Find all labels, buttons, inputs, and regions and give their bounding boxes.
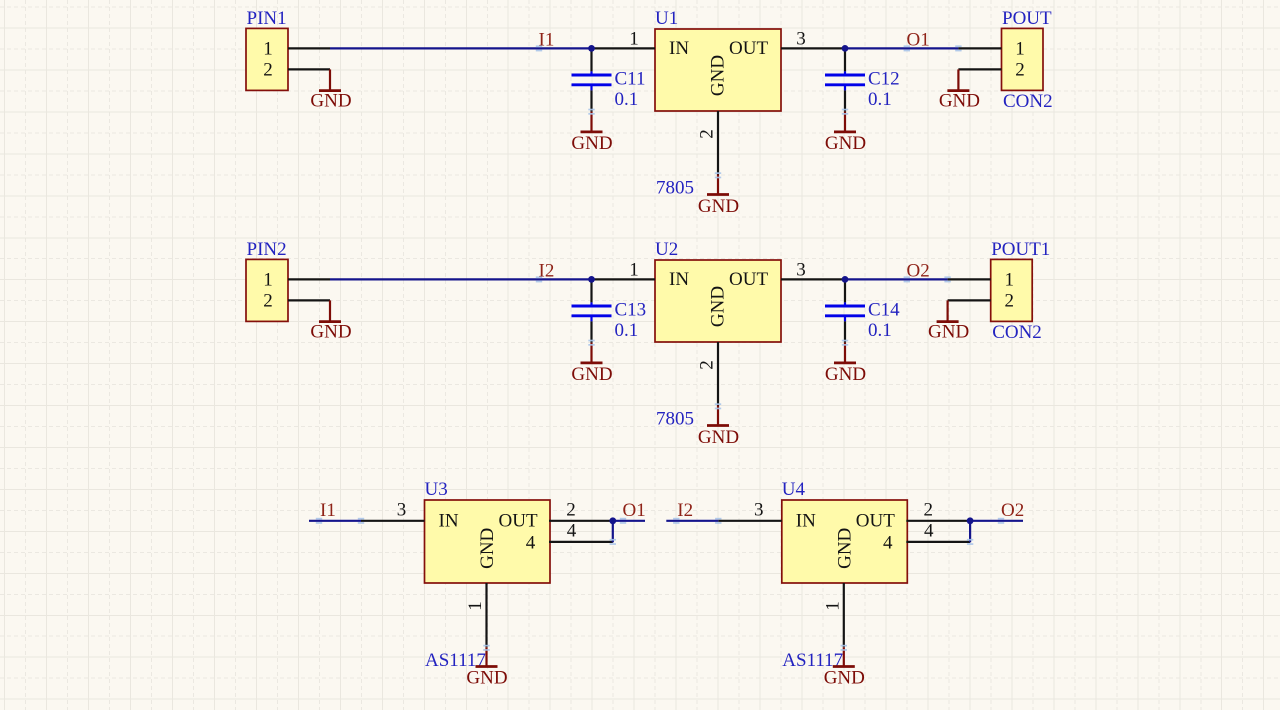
svg-text:C13: C13: [615, 299, 647, 320]
connector POUT1 (CON2): [948, 239, 1051, 321]
svg-text:4: 4: [567, 521, 577, 542]
svg-text:2: 2: [263, 290, 273, 311]
junction at U4 pins 2/4: [967, 517, 974, 524]
connector POUT (CON2): [958, 8, 1052, 90]
svg-text:GND: GND: [928, 322, 969, 343]
svg-text:I2: I2: [539, 260, 555, 281]
svg-text:GND: GND: [698, 427, 739, 448]
capacitor C14 0.1: [825, 279, 900, 342]
svg-text:2: 2: [697, 129, 718, 139]
svg-text:1: 1: [465, 601, 486, 611]
svg-text:2: 2: [924, 499, 934, 520]
junction at C11/U1 pin 1: [588, 45, 595, 52]
wire net O2 from U4: [970, 518, 1023, 524]
svg-text:U3: U3: [425, 479, 448, 500]
svg-text:OUT: OUT: [729, 38, 768, 59]
svg-text:PIN2: PIN2: [247, 239, 287, 260]
svg-text:2: 2: [263, 59, 273, 80]
ground at POUT1 pin 2: [928, 300, 969, 342]
svg-text:1: 1: [629, 28, 639, 49]
wire net I2: [330, 276, 592, 282]
regulator U3 (AS1117): [361, 479, 613, 647]
junction at U1 pin 3/C12: [842, 45, 849, 52]
svg-text:4: 4: [883, 532, 893, 553]
junction at C13/U2 pin 1: [588, 276, 595, 283]
svg-text:O1: O1: [907, 29, 930, 50]
svg-text:GND: GND: [310, 322, 351, 343]
value label AS1117 of U3: [425, 650, 486, 671]
svg-text:GND: GND: [310, 91, 351, 112]
svg-text:2: 2: [1004, 290, 1014, 311]
svg-text:0.1: 0.1: [615, 320, 639, 341]
svg-text:POUT: POUT: [1002, 8, 1052, 29]
svg-text:OUT: OUT: [856, 511, 895, 532]
svg-text:U2: U2: [655, 239, 678, 260]
ground below C11: [571, 109, 612, 154]
svg-text:2: 2: [1015, 59, 1025, 80]
svg-text:GND: GND: [571, 133, 612, 154]
svg-text:0.1: 0.1: [868, 320, 892, 341]
svg-text:0.1: 0.1: [615, 89, 639, 110]
capacitor C13 0.1: [572, 279, 647, 342]
wire U3 pin 4 riser: [610, 521, 616, 545]
svg-text:OUT: OUT: [729, 269, 768, 290]
svg-text:3: 3: [397, 499, 407, 520]
svg-text:U4: U4: [782, 479, 806, 500]
svg-text:4: 4: [924, 521, 934, 542]
svg-text:GND: GND: [708, 286, 729, 327]
svg-text:PIN1: PIN1: [247, 8, 287, 29]
ground at U1 pin 2: [698, 172, 739, 217]
value label 7805 of U2: [656, 409, 694, 430]
wire net O2: [845, 276, 951, 282]
svg-text:GND: GND: [708, 55, 729, 96]
ground below C14: [825, 340, 866, 385]
svg-text:GND: GND: [477, 528, 498, 569]
regulator U1 (7805): [592, 8, 846, 175]
net label O1 at U3 output: [623, 500, 646, 521]
svg-text:1: 1: [629, 259, 639, 280]
net label I1: [320, 500, 336, 521]
ground at PIN1 pin 2: [310, 69, 351, 111]
svg-text:7805: 7805: [656, 178, 694, 199]
regulator U4 (AS1117): [718, 479, 970, 647]
svg-text:GND: GND: [825, 133, 866, 154]
svg-text:IN: IN: [796, 511, 816, 532]
ground at POUT pin 2: [939, 69, 980, 111]
junction at U3 pins 2/4: [609, 517, 616, 524]
svg-text:2: 2: [566, 499, 576, 520]
net label O2 at U4 output: [1001, 500, 1024, 521]
svg-text:U1: U1: [655, 8, 678, 29]
svg-text:1: 1: [822, 601, 843, 611]
net label I2: [539, 260, 555, 281]
svg-text:1: 1: [1015, 38, 1025, 59]
svg-text:C11: C11: [615, 68, 646, 89]
svg-text:1: 1: [263, 269, 273, 290]
net label I2: [677, 500, 693, 521]
wire net I1: [330, 45, 592, 51]
svg-text:I1: I1: [320, 500, 336, 521]
value label CON2 of POUT: [1003, 91, 1053, 112]
svg-text:C14: C14: [868, 299, 900, 320]
ground at U3 pin 1: [466, 645, 507, 689]
svg-text:0.1: 0.1: [868, 89, 892, 110]
ground below C13: [571, 340, 612, 385]
svg-text:POUT1: POUT1: [991, 239, 1050, 260]
svg-text:CON2: CON2: [1003, 91, 1053, 112]
wire net O1 from U3: [613, 518, 645, 524]
connector PIN2 (2-pin header): [246, 239, 330, 321]
value label CON2 of POUT1: [992, 322, 1042, 343]
wire net I1 into U3: [309, 518, 364, 524]
svg-text:O2: O2: [1001, 500, 1024, 521]
svg-text:GND: GND: [698, 196, 739, 217]
net label O1: [907, 29, 930, 50]
svg-text:1: 1: [1004, 269, 1014, 290]
svg-text:O2: O2: [907, 260, 930, 281]
svg-text:3: 3: [796, 259, 806, 280]
svg-text:1: 1: [263, 38, 273, 59]
svg-text:GND: GND: [466, 668, 507, 689]
svg-text:OUT: OUT: [499, 511, 538, 532]
svg-text:O1: O1: [623, 500, 646, 521]
ground at U2 pin 2: [698, 403, 739, 448]
ground below C12: [825, 109, 866, 154]
junction at U2 pin 3/C14: [842, 276, 849, 283]
wire net O1: [845, 45, 962, 51]
svg-text:GND: GND: [825, 364, 866, 385]
svg-text:4: 4: [526, 532, 536, 553]
svg-text:7805: 7805: [656, 409, 694, 430]
wire U4 pin 4 riser: [967, 521, 973, 545]
svg-text:IN: IN: [669, 269, 689, 290]
svg-text:2: 2: [697, 360, 718, 370]
connector PIN1 (2-pin header): [246, 8, 330, 90]
net label O2: [907, 260, 930, 281]
svg-text:I2: I2: [677, 500, 693, 521]
value label 7805 of U1: [656, 178, 694, 199]
svg-text:IN: IN: [669, 38, 689, 59]
value label AS1117 of U4: [782, 650, 843, 671]
svg-text:GND: GND: [835, 528, 856, 569]
svg-text:C12: C12: [868, 68, 900, 89]
capacitor C12 0.1: [825, 48, 900, 111]
svg-text:GND: GND: [824, 668, 865, 689]
svg-text:3: 3: [796, 28, 806, 49]
svg-text:GND: GND: [939, 91, 980, 112]
wire net I2 into U4: [666, 518, 721, 524]
capacitor C11 0.1: [572, 48, 646, 111]
svg-text:3: 3: [754, 499, 764, 520]
svg-text:CON2: CON2: [992, 322, 1042, 343]
svg-text:IN: IN: [439, 511, 459, 532]
ground at PIN2 pin 2: [310, 300, 351, 342]
svg-text:GND: GND: [571, 364, 612, 385]
ground at U4 pin 1: [824, 645, 865, 689]
regulator U2 (7805): [592, 239, 846, 406]
net label I1: [539, 29, 555, 50]
svg-text:I1: I1: [539, 29, 555, 50]
